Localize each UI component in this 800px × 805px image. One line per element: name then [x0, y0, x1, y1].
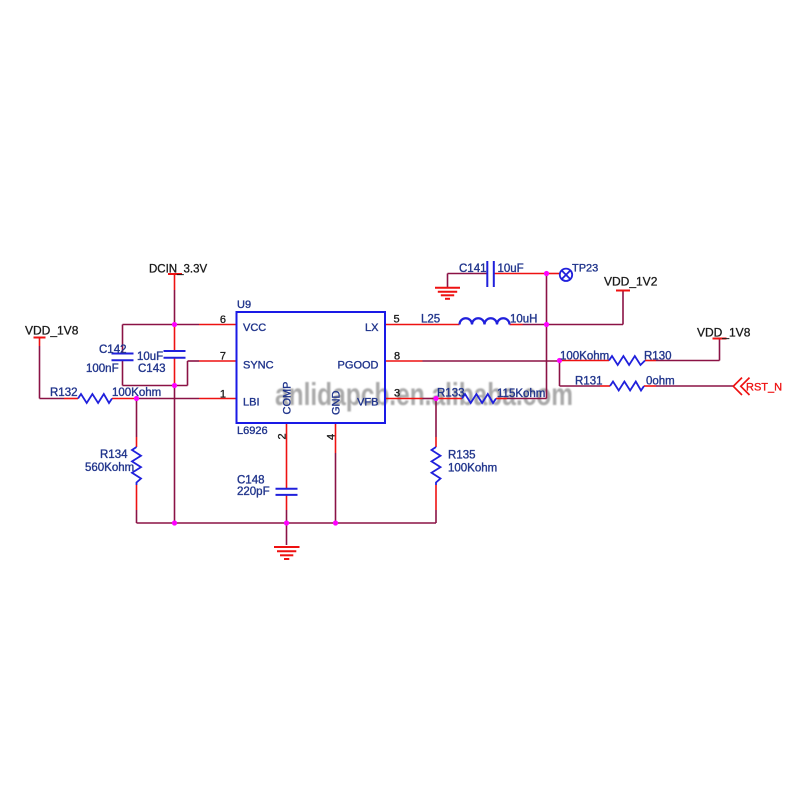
power bar VDD_1V2: [616, 290, 630, 292]
wire node D down to R135: [435, 399, 437, 448]
wire C141 right plate to node G: [494, 273, 547, 275]
svg-text:PGOOD: PGOOD: [338, 360, 379, 372]
svg-text:VFB: VFB: [357, 397, 378, 409]
label C141: [459, 263, 487, 275]
wire R134 bottom lead: [136, 485, 138, 523]
wire R130 left lead: [560, 360, 610, 362]
value 100Kohm R130: [560, 351, 609, 363]
wire L25 right lead to node F: [510, 324, 547, 326]
svg-text:10uF: 10uF: [137, 351, 163, 363]
svg-text:100nF: 100nF: [86, 363, 119, 375]
pin name COMP: [282, 382, 294, 415]
capacitor C142: [112, 354, 134, 361]
svg-text:4: 4: [326, 434, 338, 440]
pin name VFB: [357, 397, 378, 409]
junction node F: [544, 322, 549, 327]
net label VDD_1V2: [604, 275, 658, 289]
junction rail C148: [284, 520, 289, 525]
wire pin 4 GND to rail: [335, 423, 337, 523]
label L6926: [237, 425, 268, 437]
svg-text:C143: C143: [138, 363, 166, 375]
wire C142 branch vertical top: [122, 325, 124, 354]
svg-text:10uH: 10uH: [510, 314, 538, 326]
svg-text:R131: R131: [575, 376, 603, 388]
net label VDD_1V8 right: [697, 326, 751, 340]
svg-text:100Kohm: 100Kohm: [112, 387, 161, 399]
pin number 5: [394, 314, 400, 326]
svg-text:VCC: VCC: [243, 322, 266, 334]
wire R133 right lead to node E column: [496, 398, 547, 400]
wire R130 right lead to VDD_1V8 corner: [645, 339, 720, 361]
net label RST_N: [746, 382, 782, 394]
resistor R130: [609, 356, 645, 365]
ground bottom: [274, 547, 300, 559]
resistor R134: [132, 447, 141, 485]
junction rail left: [172, 520, 177, 525]
junction node H: [557, 358, 562, 363]
label L25: [421, 314, 440, 326]
svg-text:6: 6: [220, 314, 226, 326]
resistor R131: [610, 382, 644, 391]
svg-text:R132: R132: [50, 387, 78, 399]
wire C142 branch vertical bottom: [122, 361, 124, 386]
wire node H down to R131 row: [560, 361, 601, 387]
wire pin 5 LX to inductor: [385, 324, 460, 326]
pin number 6: [220, 314, 226, 326]
label R134: [100, 449, 128, 461]
value 100Kohm R135: [448, 463, 497, 475]
svg-text:R135: R135: [448, 450, 476, 462]
svg-text:10uF: 10uF: [498, 263, 524, 275]
wire R131 right lead to RST_N: [644, 385, 733, 387]
pin name GND: [331, 391, 343, 416]
label R133: [437, 388, 465, 400]
label TP23: [572, 263, 598, 275]
svg-text:VDD_1V8: VDD_1V8: [697, 326, 751, 340]
svg-text:SYNC: SYNC: [243, 360, 274, 372]
wire node B continues down: [174, 386, 176, 524]
wire vertical node E column: [546, 274, 548, 399]
junction node B: [172, 383, 177, 388]
wire VDD_1V8 left drop: [40, 338, 65, 399]
resistor R135: [432, 447, 441, 485]
svg-text:COMP: COMP: [282, 382, 294, 415]
svg-text:C141: C141: [459, 263, 487, 275]
wire C141 ground leg: [448, 274, 488, 288]
svg-text:GND: GND: [331, 391, 343, 416]
connector RST_N chevrons: [733, 378, 749, 395]
junction node A: [172, 322, 177, 327]
wire R131 left lead: [600, 385, 610, 387]
pin number 8: [394, 351, 400, 363]
svg-text:L6926: L6926: [237, 425, 268, 437]
svg-text:DCIN_3.3V: DCIN_3.3V: [149, 264, 207, 276]
svg-text:1: 1: [220, 389, 226, 401]
net label DCIN_3.3V: [149, 264, 207, 276]
value 100Kohm R132: [112, 387, 161, 399]
pin name VCC: [243, 322, 266, 334]
label R131: [575, 376, 603, 388]
svg-text:0ohm: 0ohm: [646, 376, 675, 388]
svg-text:LBI: LBI: [243, 397, 260, 409]
svg-text:R134: R134: [100, 449, 128, 461]
wire node A to pin 6 VCC: [175, 324, 238, 326]
wire pin 2 COMP to C148: [286, 423, 288, 488]
svg-text:220pF: 220pF: [237, 486, 270, 498]
wire R132 right lead to node C: [112, 398, 137, 400]
wire ground stub bottom: [286, 523, 288, 545]
capacitor C141: [487, 261, 494, 287]
svg-text:C148: C148: [237, 475, 265, 487]
svg-text:8: 8: [394, 351, 400, 363]
junction node D: [433, 396, 438, 401]
resistor R132: [78, 394, 112, 403]
label R130: [644, 351, 672, 363]
value 100nF C142: [86, 363, 119, 375]
svg-text:L25: L25: [421, 314, 440, 326]
svg-text:RST_N: RST_N: [746, 382, 782, 394]
capacitor C148: [276, 489, 298, 495]
wire R133 left lead: [436, 398, 462, 400]
wire top rail C142 to node A: [123, 324, 175, 326]
capacitor C143: [164, 351, 186, 358]
junction node G: [544, 271, 549, 276]
wire bottom ground rail: [137, 522, 437, 524]
test point TP23: [560, 269, 572, 281]
inductor L25: [460, 318, 510, 324]
svg-text:VDD_1V2: VDD_1V2: [604, 275, 658, 289]
svg-text:3: 3: [394, 388, 400, 400]
power bar VDD_1V8 right: [713, 338, 727, 340]
label C143: [138, 363, 166, 375]
label U9: [237, 299, 251, 311]
svg-text:R133: R133: [437, 388, 465, 400]
op-amp U1: IC U9 L6926 box: [237, 312, 386, 423]
value 560Kohm R134: [85, 462, 134, 474]
value 0ohm: [646, 376, 675, 388]
pin number 4: [326, 434, 338, 440]
label C148: [237, 475, 265, 487]
wire node B to pin 7 SYNC: [188, 361, 238, 386]
wire node A down to C143: [174, 325, 176, 351]
pin name LX: [365, 322, 379, 334]
pin name SYNC: [243, 360, 274, 372]
wire bottom cap rail: [123, 385, 188, 387]
power bar VDD_1V8 left: [34, 337, 46, 339]
net label VDD_1V8 left: [25, 324, 79, 338]
svg-text:7: 7: [220, 351, 226, 363]
wire pin 8 PGOOD to node H: [385, 360, 560, 362]
value 10uF C143: [137, 351, 163, 363]
wire node G to TP23: [547, 273, 561, 275]
svg-text:U9: U9: [237, 299, 251, 311]
pin number 7: [220, 351, 226, 363]
svg-text:560Kohm: 560Kohm: [85, 462, 134, 474]
svg-text:115Kohm: 115Kohm: [497, 388, 545, 400]
wire node C to pin 1 LBI: [137, 398, 238, 400]
svg-text:VDD_1V8: VDD_1V8: [25, 324, 79, 338]
wire R135 bottom lead: [435, 485, 437, 523]
svg-text:R130: R130: [644, 351, 672, 363]
junction node C: [134, 396, 139, 401]
pin name PGOOD: [338, 360, 379, 372]
junction rail pin4: [333, 520, 338, 525]
label C142: [99, 344, 127, 356]
wire C148 bottom to rail: [286, 496, 288, 524]
power bar DCIN_3.3V: [168, 273, 182, 275]
value 220pF: [237, 486, 270, 498]
svg-text:100Kohm: 100Kohm: [560, 351, 609, 363]
svg-text:5: 5: [394, 314, 400, 326]
ground near C141: [435, 288, 460, 299]
label R132: [50, 387, 78, 399]
pin number 2: [277, 433, 289, 439]
svg-text:2: 2: [277, 433, 289, 439]
value 10uF C141: [498, 263, 524, 275]
wire DCIN_3.3V vertical to node A: [174, 274, 176, 325]
pin number 1: [220, 389, 226, 401]
svg-text:100Kohm: 100Kohm: [448, 463, 497, 475]
wire pin 3 VFB to node D: [385, 398, 436, 400]
svg-text:C142: C142: [99, 344, 127, 356]
value 10uH: [510, 314, 538, 326]
wire node C down to R134: [136, 399, 138, 448]
svg-text:LX: LX: [365, 322, 379, 334]
pin name LBI: [243, 397, 260, 409]
value 115Kohm: [497, 388, 545, 400]
svg-text:TP23: TP23: [572, 263, 598, 275]
wire node F to VDD_1V2 corner: [547, 291, 624, 325]
wire C143 bottom to node B: [174, 358, 176, 386]
label R135: [448, 450, 476, 462]
pin number 3: [394, 388, 400, 400]
resistor R133: [462, 394, 496, 403]
wire R132 left lead: [64, 398, 78, 400]
